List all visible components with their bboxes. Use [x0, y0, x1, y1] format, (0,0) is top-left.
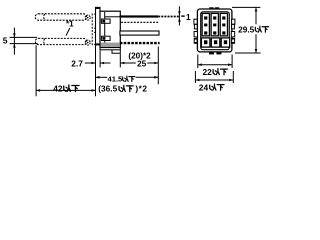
dim 5: extension lines: [10, 36, 38, 38]
fv terminal column 3 upper: [220, 13, 227, 36]
fv bottom feet: [209, 52, 214, 55]
lever lower position (dashed paddle): [35, 38, 86, 44]
svg-text:41.5: 41.5: [108, 74, 124, 83]
dim 41.5以下: [96, 76, 108, 78]
terminal hidden line below T1: [121, 21, 158, 23]
fv terminal column 2 lower: [211, 38, 220, 47]
fv terminal column 1 upper: [202, 13, 209, 36]
fv left tabs: [194, 19, 197, 24]
fv inner frame: [201, 12, 230, 50]
dim 2.7: arrows: [85, 62, 96, 64]
terminal T1 dashed extension: [158, 16, 179, 18]
svg-text:29.5: 29.5: [238, 24, 255, 34]
dim 24以下: extension lines: [194, 71, 196, 83]
terminal T2: [120, 31, 159, 35]
terminal T3 (dashed bar): [120, 42, 160, 44]
terminal hole 1: [101, 19, 110, 23]
dim 29.5以下: extension lines: [232, 6, 260, 8]
svg-text:2.7: 2.7: [71, 58, 83, 68]
body gray base band: [101, 43, 120, 47]
dim 1: tie dash: [181, 15, 185, 17]
fv right tabs: [232, 19, 235, 24]
body base plate double line: [100, 48, 120, 50]
lever pivot circle lower: [85, 40, 90, 45]
leader line: [66, 28, 70, 36]
body inner vertical line: [104, 12, 106, 43]
body foot step: [112, 50, 120, 53]
terminal T1 (solid bar): [120, 15, 159, 17]
terminal hole 2: [101, 36, 110, 40]
lever upper position (dashed paddle): [35, 14, 86, 20]
dim 25: [120, 62, 136, 64]
svg-text:22: 22: [203, 67, 213, 77]
dim 22以下: extension lines: [197, 55, 199, 69]
svg-text:(20)*2: (20)*2: [128, 51, 151, 60]
fv terminal column 3 lower: [221, 38, 230, 47]
ext line body right: [119, 54, 121, 68]
dim 22以下: dimension line: [198, 64, 232, 66]
svg-text:(36.5: (36.5: [98, 84, 117, 94]
dim 42以下: [36, 89, 95, 91]
fv top bumps: [209, 7, 213, 9]
fv terminal column 1 lower: [201, 38, 210, 47]
ext line terminal end: [157, 47, 159, 85]
svg-text:42: 42: [53, 84, 63, 94]
lever pivot circle upper: [85, 15, 90, 20]
svg-text:5: 5: [3, 35, 8, 45]
dim 2.7: extension lines: [95, 46, 97, 97]
switch body (side view): [100, 11, 120, 47]
ext line lever tip: [35, 45, 37, 96]
body inner horizontal line: [105, 16, 121, 18]
svg-text:1: 1: [186, 12, 191, 22]
dim 1: dimension line: [178, 6, 180, 25]
plate ticks: [94, 14, 95, 44]
fv body outer: [197, 9, 232, 52]
panel plate (bushing): [96, 7, 101, 45]
fv terminal column 2 upper: [211, 13, 218, 36]
lever shaft hidden line: [91, 14, 93, 47]
dim 24以下: dimension line: [195, 79, 233, 81]
svg-text:*1: *1: [66, 20, 74, 29]
dim 5: dimension line: [13, 28, 15, 55]
svg-text:24: 24: [199, 82, 209, 92]
svg-text:)*2: )*2: [135, 84, 147, 94]
dim 29.5以下: dimension line: [255, 7, 257, 24]
